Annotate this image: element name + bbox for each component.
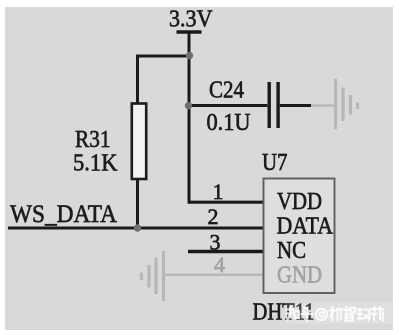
svg-text:DATA: DATA: [277, 214, 334, 240]
svg-text:NC: NC: [277, 238, 306, 264]
svg-text:R31: R31: [75, 127, 111, 153]
svg-text:0.1U: 0.1U: [207, 110, 251, 136]
svg-text:2: 2: [208, 204, 219, 229]
svg-text:C24: C24: [209, 78, 244, 104]
svg-text:5.1K: 5.1K: [73, 151, 118, 177]
svg-text:3: 3: [210, 230, 221, 255]
svg-text:GND: GND: [277, 263, 322, 289]
svg-text:1: 1: [213, 179, 224, 204]
svg-text:4: 4: [214, 252, 225, 277]
svg-text:3.3V: 3.3V: [169, 7, 213, 33]
svg-text:WS_DATA: WS_DATA: [10, 201, 117, 228]
svg-text:U7: U7: [262, 150, 288, 176]
svg-text:VDD: VDD: [277, 189, 322, 215]
